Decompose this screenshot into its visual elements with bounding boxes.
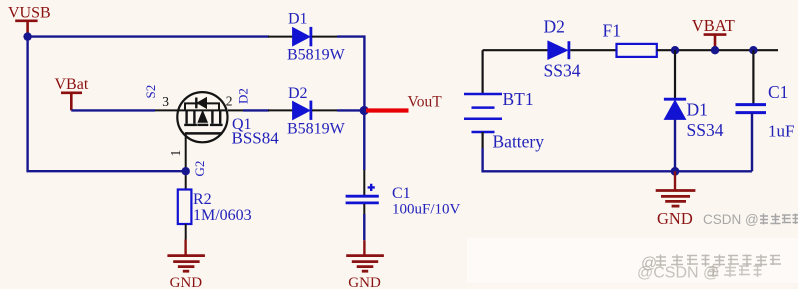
- wire D1 anode pin: [268, 36, 293, 38]
- svg-text:2: 2: [226, 94, 233, 109]
- pin C1 top (right): [752, 50, 754, 104]
- svg-text:D2: D2: [288, 85, 308, 102]
- node junction VBAT: [711, 46, 719, 54]
- pin R2 top: [185, 171, 187, 189]
- svg-text:100uF/10V: 100uF/10V: [392, 202, 461, 218]
- pin S2 of Q1: [155, 109, 178, 111]
- wire top rail D1 to corner: [337, 37, 364, 111]
- wire battery top rail to D2: [483, 49, 548, 51]
- svg-text:VUSB: VUSB: [8, 5, 51, 22]
- pin C1 top: [363, 170, 365, 195]
- wire F1 to VBAT rail: [657, 49, 778, 51]
- capacitor C1 100uF polarized: [346, 184, 461, 218]
- wire D1 branch down: [674, 50, 676, 98]
- svg-text:S2: S2: [143, 85, 158, 99]
- svg-text:GND: GND: [657, 209, 693, 228]
- wire bottom rail: [483, 148, 752, 171]
- wire top rail VUSB to D1: [28, 35, 269, 37]
- svg-text:D1: D1: [288, 11, 308, 28]
- ground GND under C1: [346, 240, 384, 271]
- svg-text:VBAT: VBAT: [692, 16, 735, 35]
- diode D2 SS34: [544, 17, 581, 81]
- transistor Q1 BSS84: [177, 92, 227, 142]
- svg-text:VouT: VouT: [408, 93, 443, 110]
- svg-text:F1: F1: [603, 20, 621, 40]
- pin G2 of Q1 (gate down): [185, 133, 187, 171]
- svg-text:1M/0603: 1M/0603: [193, 207, 252, 224]
- power port VBAT: [692, 16, 735, 50]
- wire battery bottom: [482, 132, 484, 148]
- svg-text:VBat: VBat: [55, 76, 89, 93]
- wire D2 to node: [337, 109, 364, 111]
- fuse F1: [603, 20, 657, 57]
- node junction G2/R2: [182, 167, 190, 175]
- svg-text:BSS84: BSS84: [232, 129, 280, 148]
- wire left vertical VUSB down: [28, 37, 186, 172]
- watermark CJK glyphs (mimic): [760, 214, 798, 225]
- wire D2 cathode pin: [312, 109, 337, 111]
- svg-text:SS34: SS34: [687, 120, 724, 140]
- svg-text:1uF: 1uF: [768, 122, 794, 141]
- wire VouT thick red: [366, 108, 409, 112]
- svg-text:@CSDN @: @CSDN @: [637, 265, 719, 282]
- wire VBat to Q1 source: [71, 109, 155, 111]
- wire D2 anode pin: [268, 109, 293, 111]
- wire C1 bottom to GND: [363, 204, 365, 214]
- wire D1 anode down to bottom rail: [674, 119, 676, 171]
- wire D1 cathode pin: [312, 36, 337, 38]
- node junction at VUSB: [23, 32, 31, 40]
- svg-text:R2: R2: [193, 191, 212, 208]
- svg-text:C1: C1: [392, 185, 411, 202]
- watermark bottom overlapping: [467, 238, 798, 283]
- node VouT junction: [360, 106, 369, 115]
- svg-text:G2: G2: [192, 161, 207, 177]
- svg-text:SS34: SS34: [544, 61, 581, 81]
- node junction GND: [671, 167, 680, 176]
- svg-text:3: 3: [162, 94, 169, 109]
- svg-text:D1: D1: [687, 100, 708, 120]
- diode D1 SS34 (pointing up): [664, 99, 724, 140]
- power port VBat: [55, 76, 89, 110]
- ground GND under R2: [167, 240, 205, 272]
- wire Q1 drain to D2: [243, 109, 269, 111]
- svg-text:C1: C1: [768, 82, 788, 102]
- ground GND mid: [656, 171, 696, 206]
- svg-text:GND: GND: [348, 275, 381, 289]
- pin R2 bottom: [185, 224, 187, 240]
- watermark CSDN right: [703, 212, 759, 227]
- svg-text:B5819W: B5819W: [287, 121, 346, 138]
- node junction D1 branch: [671, 46, 679, 54]
- svg-text:BT1: BT1: [503, 89, 534, 109]
- diode D2: [287, 85, 346, 138]
- battery BT1: [464, 50, 544, 151]
- diode D1: [287, 11, 346, 64]
- svg-text:CSDN @: CSDN @: [703, 212, 759, 227]
- wire node down to C1: [363, 111, 365, 171]
- svg-text:B5819W: B5819W: [287, 47, 346, 64]
- svg-text:D2: D2: [236, 88, 251, 104]
- node junction C1 branch: [749, 46, 757, 54]
- wire C1 bottom to rail: [751, 113, 753, 171]
- svg-text:GND: GND: [170, 275, 203, 289]
- resistor R2: [178, 190, 252, 225]
- svg-text:Battery: Battery: [493, 132, 545, 152]
- wire D2 to F1: [570, 49, 616, 51]
- capacitor C1 1uF: [736, 82, 795, 141]
- svg-text:D2: D2: [544, 17, 565, 37]
- pin D2 of Q1: [228, 109, 243, 111]
- power port VUSB: [8, 5, 51, 37]
- svg-text:1: 1: [168, 150, 183, 157]
